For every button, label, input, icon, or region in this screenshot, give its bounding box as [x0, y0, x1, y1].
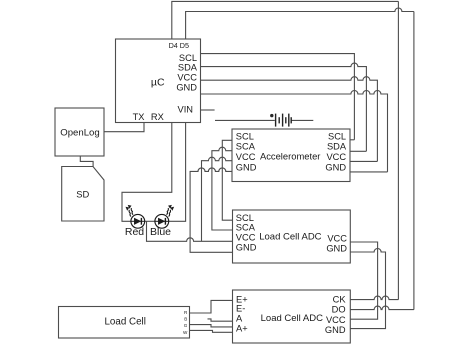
battery positive dot [270, 114, 273, 117]
svg-text:Load Cell ADC: Load Cell ADC [259, 231, 321, 242]
svg-text:SCA: SCA [236, 141, 256, 151]
wire D4 from uC top to right vertical [172, 1, 399, 39]
wire hook stub to ADC2 A [208, 319, 233, 321]
svg-text:VCC: VCC [236, 232, 256, 242]
wire uC SCL row [201, 54, 355, 140]
wire LED mid node down to VCC row with hop over GND vertical [147, 221, 233, 241]
wire D5 right vertical down to DO row [413, 12, 415, 310]
svg-text:TX: TX [133, 112, 145, 122]
wire ADC1 GND right with hop down to ADC2 GND [350, 249, 385, 329]
svg-text:VCC: VCC [177, 73, 197, 83]
accelerometer box [232, 129, 350, 182]
svg-text:Blue: Blue [150, 226, 171, 238]
wire accelerometer right GND stub [350, 171, 388, 173]
wire accelerometer right SCL stub [350, 139, 355, 141]
wire VIN open stub [201, 109, 215, 111]
OpenLog box [55, 108, 104, 156]
svg-text:VCC: VCC [326, 315, 346, 325]
wire OpenLog to SD card [80, 156, 93, 167]
wire uC GND row with hops [201, 91, 388, 172]
svg-text:Red: Red [125, 226, 144, 238]
wire uC SDA row with hop [201, 63, 367, 151]
wire CK row with hops [350, 296, 398, 299]
svg-text:SCA: SCA [236, 222, 256, 232]
svg-text:E-: E- [236, 304, 245, 314]
svg-text:SDA: SDA [178, 62, 198, 72]
svg-text:W: W [183, 330, 188, 335]
svg-text:CK: CK [333, 294, 347, 304]
wire ADC1 VCC right down to ADC2 VCC [350, 242, 377, 319]
svg-text:Load Cell: Load Cell [104, 317, 145, 328]
load cell ADC U2 box [233, 210, 351, 263]
wire load cell G to ADC2 [190, 325, 233, 327]
svg-text:SCL: SCL [236, 131, 254, 141]
svg-text:Load Cell ADC: Load Cell ADC [261, 313, 323, 324]
wire uC pin to red LED loop [122, 123, 172, 222]
svg-text:A: A [236, 314, 243, 324]
svg-text:SD: SD [76, 188, 89, 199]
load cell box [59, 307, 190, 339]
svg-text:GND: GND [236, 243, 257, 253]
svg-text:B: B [184, 317, 187, 322]
svg-text:VIN: VIN [178, 105, 194, 115]
svg-text:OpenLog: OpenLog [60, 128, 99, 139]
SD card [62, 167, 104, 222]
svg-text:DO: DO [332, 304, 346, 314]
svg-text:A+: A+ [236, 323, 248, 333]
load cell ADC U3 box [233, 290, 351, 343]
load cell wire color pins R B G W [183, 310, 188, 335]
wire D4 right vertical down to CK row [397, 1, 399, 299]
wire accelerometer right VCC stub [350, 160, 378, 162]
svg-text:GND: GND [176, 82, 197, 92]
svg-text:RX: RX [151, 112, 164, 122]
svg-text:GND: GND [326, 244, 347, 254]
svg-text:D4 D5: D4 D5 [169, 41, 189, 50]
svg-text:SDA: SDA [327, 141, 347, 151]
LED D2 blue [155, 205, 174, 228]
wire D5 from uC top with hop over D4 vertical [186, 8, 414, 39]
wire uC VCC row with hops [201, 77, 378, 162]
svg-text:GND: GND [325, 325, 346, 335]
wire accelerometer right SDA stub [350, 150, 367, 152]
wire accelerometer left VCC loop with hops [202, 157, 233, 241]
svg-text:VCC: VCC [327, 233, 347, 243]
svg-text:VCC: VCC [236, 152, 256, 162]
battery BT1 [276, 114, 292, 127]
svg-text:GND: GND [325, 162, 346, 172]
svg-text:VCC: VCC [326, 152, 346, 162]
microcontroller U1 box [116, 39, 201, 123]
wire battery left segment [215, 119, 275, 121]
svg-text:Accelerometer: Accelerometer [260, 151, 320, 162]
wire between LEDs [145, 220, 155, 222]
LED D1 red [126, 205, 145, 228]
wire accelerometer left SCL loop [222, 140, 232, 220]
svg-text:GND: GND [236, 162, 257, 172]
svg-text:SCL: SCL [328, 131, 346, 141]
wire accelerometer left SDA loop with hop [212, 147, 233, 230]
wire uC pin to blue LED [169, 123, 186, 222]
wire DO row with hops [350, 306, 414, 310]
svg-text:µC: µC [151, 76, 165, 88]
wire battery right segment [291, 119, 314, 121]
wire accelerometer left GND loop with hops [190, 168, 232, 252]
wire load cell R to ADC2 E+ [190, 300, 233, 313]
wire TX to OpenLog [104, 123, 144, 132]
svg-text:R: R [184, 310, 188, 315]
svg-text:G: G [184, 323, 188, 328]
wire load cell W to ADC2 A+ [190, 330, 233, 332]
